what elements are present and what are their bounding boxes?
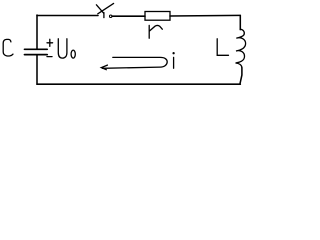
- capacitor C1 bottom plate: [25, 54, 48, 56]
- wire left vertical upper: [36, 15, 38, 49]
- label r: [149, 25, 162, 38]
- minus sign: [47, 56, 52, 58]
- resistor r box: [145, 12, 170, 21]
- wire left vertical lower: [36, 55, 38, 84]
- arrowhead of current loop: [101, 65, 107, 70]
- switch S tick: [103, 13, 105, 18]
- wire bottom: [37, 83, 240, 85]
- label i dot: [172, 52, 174, 54]
- plus sign: [47, 39, 53, 46]
- label 0 subscript: [71, 50, 75, 58]
- current loop arrow: [103, 57, 168, 68]
- capacitor C1 top plate: [25, 48, 48, 50]
- label i stem: [173, 57, 175, 68]
- label C: [3, 39, 13, 56]
- label U: [58, 39, 67, 58]
- label L: [217, 39, 228, 56]
- switch S contact circle: [109, 15, 112, 18]
- wire switch to resistor: [112, 15, 145, 17]
- switch S blade: [98, 3, 114, 13]
- switch S cross stroke: [96, 5, 103, 14]
- wire resistor to top-right corner: [170, 14, 240, 17]
- wire top-left segment: [37, 15, 98, 17]
- inductor L coil: [236, 29, 246, 67]
- wire right vertical upper: [239, 15, 241, 29]
- wire right vertical lower: [240, 68, 242, 85]
